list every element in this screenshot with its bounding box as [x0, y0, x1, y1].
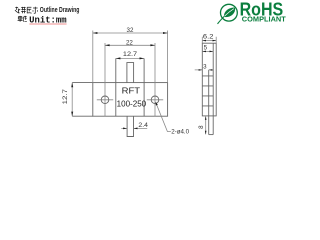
- arrow 3 left: [199, 69, 203, 71]
- svg-text:5: 5: [204, 45, 208, 52]
- dim line 12.7 top: [116, 57, 144, 59]
- dim line 5: [202, 50, 213, 52]
- bottom edge extension to vertical dim: [72, 115, 93, 117]
- side inner line / pin right edge: [212, 43, 214, 134]
- dim line 32: [93, 32, 168, 34]
- hole left: [101, 96, 109, 104]
- arrow pin bottom: [205, 131, 207, 135]
- pin length dim line: [205, 116, 207, 134]
- RoHS logo leaf circle: [218, 4, 238, 24]
- arrow v12.7 bottom: [71, 112, 73, 117]
- leaf: [224, 7, 235, 17]
- arrow 6.2 right: [213, 40, 217, 42]
- dim line 22: [105, 44, 155, 46]
- dim line 3: [195, 69, 212, 71]
- body left edge: [115, 58, 117, 116]
- side division lines: [202, 76, 213, 106]
- leader line 2-ø4.0: [156, 103, 171, 132]
- svg-text:COMPLIANT: COMPLIANT: [242, 14, 286, 23]
- arrow 32 left: [93, 32, 98, 34]
- svg-text:2-ø4.0: 2-ø4.0: [171, 129, 189, 136]
- leaf stem: [218, 16, 225, 24]
- arrow leader at hole: [156, 102, 158, 106]
- svg-text:12.7: 12.7: [62, 88, 69, 104]
- svg-text:Outline Drawing: Outline Drawing: [40, 5, 80, 14]
- top tab: [127, 63, 134, 83]
- arrow v12.7 top: [71, 83, 73, 88]
- body right edge: [143, 58, 145, 116]
- arrow 5 left: [202, 51, 206, 53]
- side pin left edge: [208, 70, 210, 135]
- arrowheads side view: [199, 40, 217, 135]
- side outline: [202, 43, 216, 116]
- svg-text:6.2: 6.2: [203, 34, 214, 41]
- ext line left 32: [92, 31, 94, 83]
- svg-text:3: 3: [203, 63, 207, 70]
- dim line 2.4: [121, 127, 147, 129]
- side pin bottom: [209, 134, 214, 136]
- dim line 6.2: [202, 40, 216, 42]
- arrow 22 left: [105, 44, 110, 46]
- bottom terminal tab: [127, 116, 133, 136]
- arrow 22 right: [150, 44, 155, 46]
- svg-text:32: 32: [127, 27, 134, 34]
- arrow 12.7 right: [140, 57, 145, 59]
- unit CJK 单位 (simulated strokes): [18, 16, 27, 22]
- hole crosshair right: [147, 99, 163, 101]
- hole crosshair left: [97, 99, 113, 101]
- arrow pin top: [205, 116, 207, 120]
- svg-text:2.4: 2.4: [138, 122, 148, 129]
- arrowheads main view: [71, 32, 167, 129]
- svg-text:8: 8: [198, 125, 205, 129]
- arrow 5 right: [210, 51, 214, 53]
- side ext lines top: [202, 37, 216, 43]
- ext/centerline left hole: [104, 43, 106, 116]
- hole right: [151, 96, 159, 104]
- arrow 2.4 right: [134, 128, 138, 130]
- arrow 12.7 left: [116, 57, 121, 59]
- svg-text:100-250: 100-250: [117, 100, 147, 109]
- unit underline (pink): [29, 23, 66, 25]
- top edge extension to vertical dim: [72, 82, 93, 84]
- ext/centerline right hole: [154, 43, 156, 116]
- svg-text:RFT: RFT: [122, 85, 140, 95]
- svg-text:22: 22: [126, 39, 133, 46]
- arrow 32 right: [163, 32, 168, 34]
- arrow 6.2 left: [202, 40, 206, 42]
- title CJK 外形尺寸 (simulated strokes): [15, 7, 38, 14]
- vertical dim line 12.7: [71, 83, 73, 117]
- arrow 2.4 left: [123, 128, 127, 130]
- flange outline: [93, 83, 168, 117]
- ext line right 32: [167, 31, 169, 83]
- arrow 3 right: [209, 69, 213, 71]
- svg-text:12.7: 12.7: [123, 51, 138, 58]
